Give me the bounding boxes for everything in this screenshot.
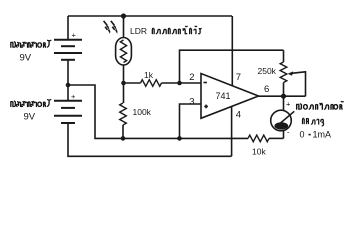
node pin3 junction [177,136,182,141]
svg-text:7: 7 [236,72,241,83]
svg-text:+: + [286,100,291,109]
label battery1 [11,40,51,47]
resistor 1k [141,80,162,87]
wire midpoint tap [68,85,248,138]
plus input mark [204,105,208,109]
resistor 100k [120,83,127,138]
wire output pin 6 [259,95,306,97]
svg-text:1k: 1k [144,70,154,80]
op-amp U1 741 [201,74,259,119]
svg-text:+: + [72,31,77,40]
svg-text:9V: 9V [20,52,32,63]
svg-text:10k: 10k [252,147,266,157]
wire pin4 riser [231,106,233,156]
svg-text:741: 741 [216,91,231,101]
label ammeter [297,102,344,110]
svg-text:2: 2 [189,72,194,83]
potentiometer 250k [280,50,305,96]
svg-text:100k: 100k [133,107,152,117]
resistor 10k [248,135,269,142]
svg-text:+: + [71,92,76,101]
wire between batteries [67,60,69,100]
node junction LDR top [121,13,126,18]
svg-text:LDR: LDR [130,26,147,36]
meter M1 ammeter [271,96,295,138]
light arrows [104,21,118,34]
battery B2 9V [54,92,82,123]
svg-text:3: 3 [189,96,194,107]
minus input mark [204,82,207,84]
node 100k bottom [121,136,126,141]
pin 7 wire [231,16,233,86]
node LDR bottom junction [121,81,126,86]
svg-text:9V: 9V [24,112,36,123]
wire pin 3 [180,104,202,138]
LDR photoresistor [116,16,132,83]
battery B1 9V [54,31,82,60]
wire top rail [68,15,232,17]
label DC [303,118,324,126]
svg-text:6: 6 [264,84,269,95]
label battery2 [11,100,51,107]
node output junction [281,94,286,99]
svg-text:1mA: 1mA [313,130,332,140]
svg-text:4: 4 [236,109,241,120]
wire feedback loop [180,50,284,83]
svg-text:250k: 250k [258,66,277,76]
wire 1k to op-amp [162,82,202,84]
wire battery B1 top [67,16,69,39]
wire battery B2 bottom to bottom rail [68,123,232,156]
wire 1k left [124,82,141,84]
node battery midpoint [66,83,71,88]
svg-text:0: 0 [300,130,305,140]
node pin2 junction [177,81,182,86]
wire 10k to meter bottom [269,137,284,139]
